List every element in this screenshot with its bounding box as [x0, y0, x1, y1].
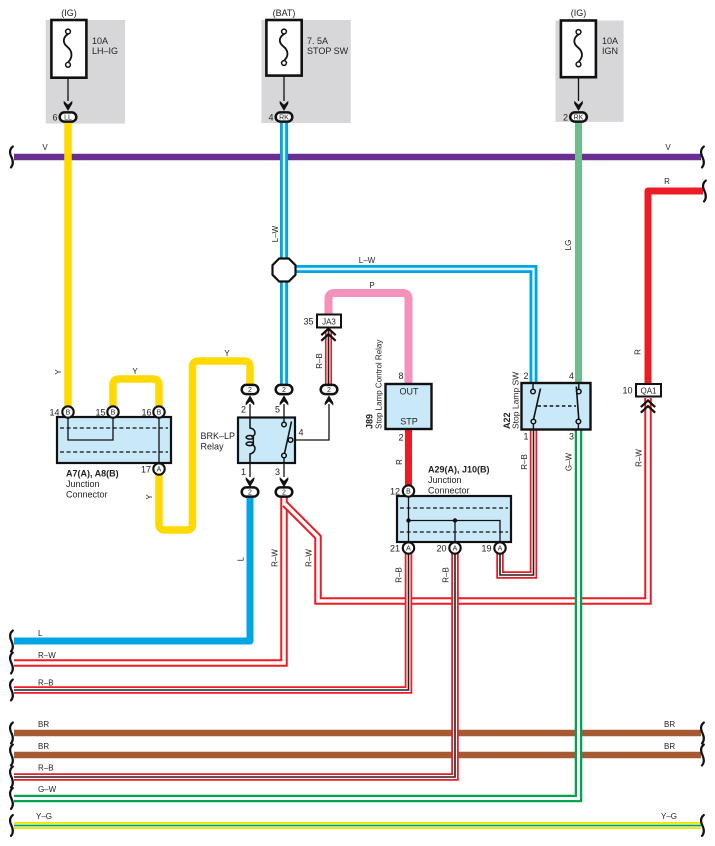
wire R-B JA3 drop to relay oval — [315, 330, 329, 384]
svg-text:G–W: G–W — [565, 452, 574, 471]
svg-text:JA3: JA3 — [322, 318, 336, 327]
svg-text:2: 2 — [248, 387, 252, 394]
svg-text:LH–IG: LH–IG — [92, 46, 118, 56]
svg-text:19: 19 — [481, 544, 491, 554]
relay J89 stop lamp control relay — [365, 340, 432, 443]
svg-text:(IG): (IG) — [571, 8, 587, 18]
wire Y fuse LH-IG to junction 14(B) — [54, 123, 68, 406]
fuse F2 7.5A STOP SW — [266, 8, 348, 123]
svg-text:RK: RK — [279, 115, 289, 122]
wire relay pin 5 stem — [283, 404, 285, 418]
svg-text:2: 2 — [523, 371, 528, 381]
svg-text:P: P — [369, 281, 374, 290]
svg-text:5: 5 — [275, 405, 280, 415]
fuse block background (IG) LH-IG — [46, 20, 125, 124]
relay J89 body — [386, 384, 432, 429]
chevron arrow into QA1 — [641, 401, 655, 408]
svg-text:(BAT): (BAT) — [273, 8, 296, 18]
svg-text:BR: BR — [38, 720, 49, 729]
svg-text:B: B — [406, 489, 411, 496]
svg-text:L: L — [237, 556, 246, 561]
junction A7/A8 body — [57, 417, 171, 463]
svg-text:STOP SW: STOP SW — [307, 46, 349, 56]
svg-text:2: 2 — [563, 113, 568, 123]
wire R-B from junction 21(A) to left — [10, 552, 408, 700]
svg-text:Connector: Connector — [428, 486, 470, 496]
svg-text:R–B: R–B — [520, 454, 529, 470]
wire Y loop junction 15(B) to 16(B) — [113, 367, 159, 406]
svg-text:A: A — [406, 546, 411, 553]
svg-text:20: 20 — [436, 544, 446, 554]
arrow into terminal LL — [64, 101, 73, 111]
svg-text:12: 12 — [390, 487, 400, 497]
svg-text:A: A — [498, 546, 503, 553]
svg-text:LG: LG — [564, 240, 573, 251]
switch A22 stop lamp SW — [502, 371, 591, 442]
svg-text:R–B: R–B — [395, 567, 404, 583]
fuse block background (BAT) STOP SW — [261, 20, 350, 123]
wire relay pin 3 stem — [283, 463, 285, 477]
svg-text:4: 4 — [569, 371, 574, 381]
junction A7 internal bus — [68, 412, 113, 440]
svg-text:Junction: Junction — [428, 475, 462, 485]
relay switch contacts — [282, 422, 287, 427]
svg-text:3: 3 — [275, 467, 280, 477]
wire relay pin 1 stem — [249, 463, 251, 477]
terminals 14B 15B 16B 17A — [62, 406, 73, 417]
wire Y-G bottom bus — [10, 812, 704, 836]
junction A29/J10 body — [397, 496, 511, 542]
terminals 12B 21A 20A 19A — [403, 485, 414, 496]
svg-text:Y: Y — [132, 367, 138, 376]
arrows into relay terminals — [246, 395, 255, 405]
svg-text:B: B — [66, 410, 71, 417]
svg-text:BR: BR — [664, 742, 675, 751]
svg-text:Junction: Junction — [66, 479, 100, 489]
svg-text:G–W: G–W — [38, 785, 57, 794]
chevron arrow into JA3 — [321, 329, 335, 336]
svg-text:A29(A), J10(B): A29(A), J10(B) — [428, 465, 490, 475]
svg-text:R–B: R–B — [315, 353, 324, 369]
wire V violet bus — [10, 143, 704, 167]
relay switch contact stems — [283, 418, 285, 422]
svg-text:B: B — [157, 410, 162, 417]
svg-text:8: 8 — [398, 371, 403, 381]
svg-text:RK: RK — [574, 115, 584, 122]
svg-text:2: 2 — [241, 405, 246, 415]
svg-text:R: R — [634, 349, 643, 355]
terminal ovals 2 — [242, 385, 259, 394]
connector QA1 — [622, 384, 661, 413]
terminal oval 2 RK — [570, 112, 587, 121]
wire R-W from BRK-LP relay pin 3 to left — [10, 496, 284, 673]
svg-text:1: 1 — [241, 467, 246, 477]
svg-text:10: 10 — [622, 386, 632, 396]
junction A29 internal bus — [409, 491, 501, 548]
switch mechanical link — [538, 405, 577, 407]
svg-text:Y–G: Y–G — [36, 812, 52, 821]
wire L-W node to stop lamp SW pin 2 — [284, 256, 534, 384]
svg-text:Stop Lamp Control Relay: Stop Lamp Control Relay — [375, 340, 384, 429]
switch A22 body — [522, 383, 591, 430]
fuse F1 10A LH-IG — [51, 8, 118, 123]
svg-text:Relay: Relay — [201, 442, 225, 452]
wire R relay J89 STP to junction 12(B) — [395, 428, 409, 488]
junction connector A7(A), A8(B) — [49, 406, 171, 499]
svg-text:R: R — [664, 177, 670, 186]
svg-text:15: 15 — [95, 408, 105, 418]
svg-text:2: 2 — [398, 433, 403, 443]
svg-text:Y: Y — [224, 349, 230, 358]
svg-text:R: R — [395, 459, 404, 465]
svg-text:B: B — [111, 410, 116, 417]
wire R-B junction 19(A) to stop lamp SW pin 1 — [500, 428, 534, 575]
svg-text:7. 5A: 7. 5A — [307, 36, 328, 46]
svg-text:4: 4 — [298, 428, 303, 438]
svg-text:1: 1 — [523, 432, 528, 442]
fuse F3 10A IGN — [561, 8, 618, 123]
wire relay pin 2 stem — [249, 404, 251, 418]
wire F1 stem — [67, 77, 69, 101]
svg-text:OUT: OUT — [400, 387, 420, 397]
svg-text:35: 35 — [303, 317, 313, 327]
arrow into terminal RK — [280, 101, 289, 111]
svg-text:2: 2 — [282, 490, 286, 497]
svg-text:STP: STP — [400, 417, 418, 427]
svg-text:R–B: R–B — [442, 567, 451, 583]
junction connector A29(A), J10(B) — [390, 465, 511, 554]
svg-text:3: 3 — [569, 432, 574, 442]
wire LG fuse IGN to stop lamp SW pin 4 — [564, 122, 579, 384]
wire Y junction 17(A) to BRK-LP relay pin 2 — [145, 349, 250, 530]
arrow into terminal RK — [574, 101, 583, 111]
svg-text:L: L — [38, 629, 43, 638]
svg-text:14: 14 — [49, 408, 59, 418]
svg-text:R–W: R–W — [305, 549, 314, 567]
wire P JA3 to relay J89 OUT — [329, 281, 409, 384]
svg-text:R–W: R–W — [271, 549, 280, 567]
svg-text:V: V — [42, 143, 48, 152]
wire BR lower — [10, 742, 704, 765]
svg-text:IGN: IGN — [602, 46, 618, 56]
svg-text:A: A — [453, 546, 458, 553]
svg-text:L–W: L–W — [359, 256, 376, 265]
svg-text:R–W: R–W — [38, 651, 56, 660]
switch contact stems — [532, 384, 534, 389]
wire R battery feed to QA1 — [634, 177, 706, 384]
switch contacts and blades — [531, 389, 536, 394]
relay coil — [250, 418, 255, 438]
svg-text:A: A — [157, 467, 162, 474]
connector JA3 — [303, 315, 341, 341]
junction A29 dashed rows — [400, 507, 508, 509]
wire L from BRK-LP relay pin 1 — [10, 496, 250, 651]
node octagon junction — [273, 259, 296, 282]
svg-text:R–B: R–B — [38, 764, 54, 773]
relay BRK-LP — [201, 385, 338, 497]
svg-text:QA1: QA1 — [640, 387, 657, 396]
svg-text:10A: 10A — [92, 36, 108, 46]
fuse F2 symbol — [282, 29, 287, 34]
wire R-B from junction 20(A) to left — [10, 552, 455, 787]
fuse F1 symbol — [66, 29, 71, 34]
svg-text:2: 2 — [282, 387, 286, 394]
wire L-W fuse STOP SW to BRK-LP relay pin 5 — [271, 123, 284, 384]
svg-text:J89: J89 — [365, 414, 375, 429]
svg-text:6: 6 — [52, 113, 57, 123]
relay BRK-LP body — [238, 418, 295, 464]
svg-text:BRK–LP: BRK–LP — [201, 431, 236, 441]
junction A7 dashed rows — [60, 427, 168, 429]
svg-text:Connector: Connector — [66, 490, 108, 500]
terminal oval 4 RK — [276, 112, 293, 121]
svg-text:A7(A), A8(B): A7(A), A8(B) — [66, 469, 119, 479]
svg-text:2: 2 — [248, 490, 252, 497]
wire R-W branch to QA1 — [285, 398, 648, 601]
svg-text:V: V — [665, 143, 671, 152]
svg-text:17: 17 — [141, 465, 151, 475]
svg-text:L–W: L–W — [271, 225, 280, 242]
svg-text:BR: BR — [38, 742, 49, 751]
fuse block background (IG) IGN — [556, 21, 624, 122]
svg-text:16: 16 — [141, 408, 151, 418]
svg-text:21: 21 — [390, 544, 400, 554]
svg-text:2: 2 — [327, 387, 331, 394]
svg-text:Stop Lamp SW: Stop Lamp SW — [511, 372, 521, 429]
terminal oval 6 LL — [60, 112, 77, 121]
wire F2 stem — [283, 75, 285, 101]
svg-text:10A: 10A — [602, 36, 618, 46]
wire F3 stem — [578, 77, 580, 101]
wire BR upper — [10, 720, 704, 743]
svg-text:R–B: R–B — [38, 679, 54, 688]
svg-text:BR: BR — [664, 720, 675, 729]
svg-text:4: 4 — [268, 113, 273, 123]
svg-text:Y–G: Y–G — [661, 812, 677, 821]
svg-text:(IG): (IG) — [61, 8, 77, 18]
svg-text:LL: LL — [64, 115, 72, 122]
wire relay pin 4 link — [293, 404, 330, 440]
fuse F3 symbol — [576, 30, 581, 35]
svg-text:Y: Y — [54, 369, 63, 375]
svg-text:R–W: R–W — [635, 449, 644, 467]
svg-text:Y: Y — [145, 494, 154, 500]
junction dots — [406, 518, 410, 522]
wire G-W from stop lamp SW pin 3 to left — [10, 428, 578, 809]
